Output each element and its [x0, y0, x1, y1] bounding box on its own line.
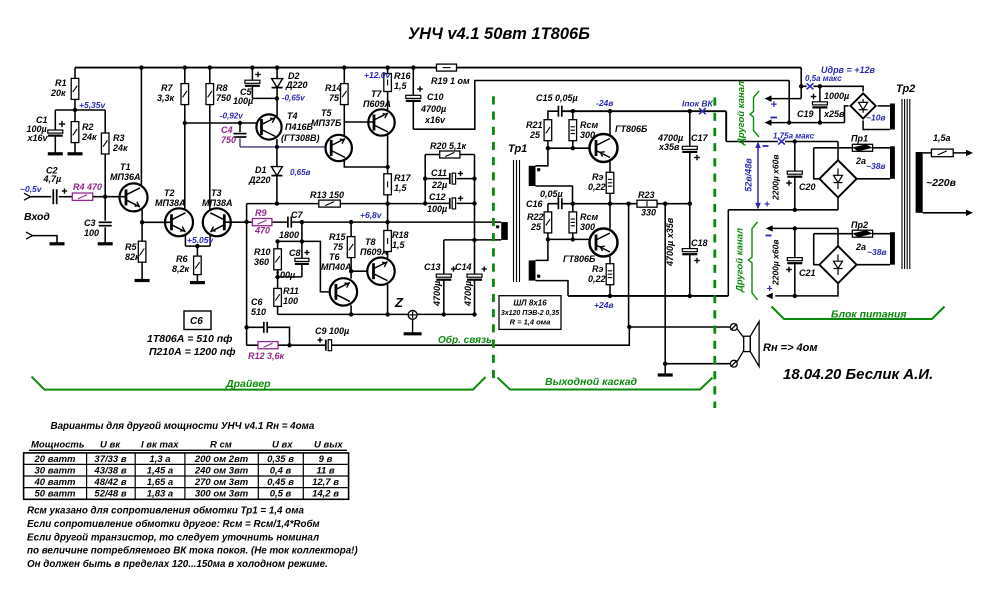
- transistor T3: [202, 188, 232, 236]
- svg-text:1,3 а: 1,3 а: [149, 454, 170, 465]
- input terminal: [24, 193, 31, 200]
- svg-text:R9: R9: [255, 208, 267, 218]
- label Блок питания: [831, 309, 907, 321]
- transistor T8: [360, 237, 395, 285]
- winding Tp2 sec2: [890, 146, 895, 179]
- capacitor C11: [431, 168, 463, 190]
- diode D1: [248, 165, 282, 185]
- transistor T4: [256, 111, 319, 143]
- wire T3 emitter: [209, 235, 211, 247]
- wire R20 block left: [424, 155, 426, 204]
- svg-text:11 в: 11 в: [316, 465, 335, 476]
- svg-text:2200µ х60в: 2200µ х60в: [771, 240, 781, 286]
- resistor R2: [71, 122, 97, 143]
- wire R12 to C9: [290, 344, 326, 346]
- svg-text:100µ: 100µ: [427, 204, 447, 214]
- svg-text:~38в: ~38в: [866, 161, 886, 171]
- svg-text:2а: 2а: [855, 156, 866, 166]
- wire T6 base path: [278, 241, 330, 292]
- svg-text:R18: R18: [392, 230, 409, 240]
- svg-text:50 ватт: 50 ватт: [35, 489, 77, 500]
- ground speaker: [658, 373, 673, 376]
- label date author: [783, 366, 933, 383]
- wire T1 emitter: [141, 209, 143, 222]
- svg-text:П609А: П609А: [363, 99, 391, 109]
- wire base line upper GT806: [548, 147, 590, 149]
- svg-text:R7: R7: [161, 83, 173, 93]
- wire R20 leads: [425, 154, 474, 156]
- capacitor C17: [657, 133, 709, 160]
- wire C18 branch: [689, 204, 691, 296]
- svg-text:Rсм: Rсм: [580, 120, 599, 130]
- svg-text:R1: R1: [55, 78, 67, 88]
- svg-text:750: 750: [221, 135, 236, 145]
- svg-text:Т5: Т5: [321, 108, 332, 118]
- svg-text:30 ватт: 30 ватт: [35, 465, 77, 476]
- svg-text:1,5: 1,5: [392, 240, 406, 250]
- wire input2 to ground: [33, 236, 58, 243]
- svg-text:1,5: 1,5: [394, 81, 408, 91]
- svg-text:0,35 в: 0,35 в: [267, 454, 294, 465]
- wire R4 to T1 base: [93, 196, 126, 198]
- wire junctions: [73, 65, 822, 366]
- transformer Tp2 label: [896, 83, 915, 95]
- svg-text:Rсм указано для сопротивления: Rсм указано для сопротивления обмотки Тр…: [27, 506, 304, 517]
- capacitor C6: [251, 297, 267, 333]
- svg-text:100: 100: [283, 296, 298, 306]
- svg-text:Вход: Вход: [24, 211, 50, 223]
- svg-text:R15: R15: [329, 232, 347, 242]
- transformer Tp1 core: [514, 160, 520, 282]
- svg-text:43/38 в: 43/38 в: [93, 465, 126, 476]
- capacitor C21: [771, 240, 816, 286]
- wire T6 emitter: [350, 305, 352, 314]
- svg-text:-24в: -24в: [596, 98, 613, 108]
- svg-text:МП36А: МП36А: [110, 172, 140, 182]
- transistor T1: [110, 162, 148, 211]
- input terminal 2: [26, 232, 33, 239]
- svg-text:0,5а макс: 0,5а макс: [805, 74, 842, 83]
- capacitor C14: [455, 262, 487, 307]
- wire speaker bottom lead: [665, 363, 730, 365]
- arrow mains bottom: [966, 210, 973, 216]
- resistor R19: [431, 64, 470, 86]
- wire Tp2 primary top: [923, 152, 967, 154]
- wire T2 emitter: [184, 235, 186, 247]
- winding Tp1 lower secondary: [529, 260, 541, 280]
- svg-text:R12 3,6к: R12 3,6к: [248, 351, 285, 361]
- label +24v: [594, 300, 614, 310]
- wire output of D-chain R13 line: [247, 203, 426, 205]
- capacitor C16: [526, 189, 563, 209]
- resistor Rsm lower: [569, 212, 599, 233]
- wire feedback branch vertical: [246, 204, 248, 346]
- label Драйвер: [225, 378, 271, 390]
- bracket other channel upper: [750, 91, 759, 137]
- bracket other channel lower: [749, 222, 758, 300]
- wire R16 branch: [387, 68, 389, 110]
- wire C5 branch: [252, 68, 277, 99]
- wire C6 branch: [247, 327, 290, 345]
- svg-text:25: 25: [529, 130, 541, 140]
- svg-text:Rэ: Rэ: [592, 264, 603, 274]
- svg-text:П210А = 1200 пф: П210А = 1200 пф: [149, 346, 236, 358]
- capacitor C12: [427, 192, 463, 214]
- wire rail return from C10: [413, 81, 789, 130]
- box transformer spec: [499, 296, 561, 330]
- wire C17 branch: [689, 111, 691, 204]
- speaker terminal top: [730, 324, 737, 331]
- wire C2 to R4: [59, 196, 73, 198]
- label 1,75a maks: [773, 132, 815, 141]
- capacitor C2: [43, 166, 68, 205]
- wire Tp2 primary bottom: [923, 212, 967, 214]
- wire T3 base to R9: [224, 221, 252, 223]
- resistor R4: [72, 182, 102, 200]
- svg-text:Rсм: Rсм: [580, 212, 599, 222]
- svg-text:I вк max: I вк max: [141, 440, 179, 451]
- rectifier bridge VD2: [819, 160, 856, 197]
- wire R8 T3 collector: [209, 68, 211, 211]
- wire Rsm2 branch: [572, 204, 574, 240]
- label 0,65в: [290, 168, 311, 177]
- wire C14 branch: [474, 240, 476, 315]
- wire emitter rail T2 T3: [185, 245, 210, 247]
- svg-text:R8: R8: [216, 83, 228, 93]
- svg-text:R5: R5: [125, 242, 137, 252]
- label +5.05v: [187, 235, 215, 245]
- wire C10 branch: [412, 68, 414, 130]
- svg-text:1,5: 1,5: [394, 183, 408, 193]
- resistor R8: [206, 83, 231, 105]
- wire R15 branch: [350, 222, 352, 279]
- label Rn 4om: [763, 342, 818, 354]
- ground input: [50, 242, 65, 245]
- ground C1: [48, 152, 63, 155]
- capacitor C8: [275, 248, 310, 280]
- winding Tp1 upper secondary: [529, 166, 541, 186]
- wire upper winding bottom: [536, 186, 573, 204]
- speaker: [737, 322, 759, 367]
- wire bridge2 ac box: [814, 148, 890, 179]
- label 0,5a maks: [805, 74, 842, 83]
- label ~10v: [866, 113, 886, 123]
- svg-text:100µ: 100µ: [233, 96, 253, 106]
- svg-text:4,7µ: 4,7µ: [43, 174, 62, 184]
- svg-text:0,05µ: 0,05µ: [540, 189, 563, 199]
- speaker terminal bottom: [730, 360, 737, 367]
- wire T4 emitter to node: [276, 139, 278, 147]
- wire R12 line: [247, 344, 290, 346]
- resistor R16: [384, 71, 412, 92]
- svg-text:R2: R2: [82, 122, 94, 132]
- wire bridge3 bottom: [775, 283, 838, 296]
- wire R10 top to +6.8 line: [278, 222, 321, 241]
- svg-text:52в/48в: 52в/48в: [744, 158, 754, 192]
- transistor T7: [363, 89, 395, 136]
- table power variants: [24, 421, 349, 500]
- label -0,65v: [282, 94, 305, 103]
- wire link +24 to PSU: [728, 210, 838, 296]
- wire -24v rail: [563, 111, 727, 141]
- svg-text:С6: С6: [190, 316, 203, 327]
- wire C4 to T5 base: [240, 138, 326, 147]
- svg-text:12,7 в: 12,7 в: [312, 477, 339, 488]
- wire Rsm1 branch: [572, 111, 574, 148]
- svg-text:0,22: 0,22: [588, 274, 606, 284]
- net divider output/psu: [713, 98, 716, 409]
- label ~0,5v: [20, 184, 43, 194]
- svg-text:750: 750: [216, 93, 231, 103]
- ground R2: [68, 152, 83, 155]
- wire R10 R11 chain: [277, 241, 279, 314]
- svg-text:R23: R23: [638, 190, 655, 200]
- capacitor C13: [424, 262, 456, 307]
- svg-text:~10в: ~10в: [866, 113, 886, 123]
- svg-text:Выходной каскад: Выходной каскад: [545, 376, 638, 388]
- wire speaker ground: [664, 364, 666, 374]
- svg-text:Т7: Т7: [371, 89, 382, 99]
- svg-text:40 ватт: 40 ватт: [34, 477, 77, 488]
- svg-text:4700µ: 4700µ: [432, 281, 442, 307]
- transistor T5: [311, 108, 352, 161]
- svg-text:Тр1: Тр1: [508, 143, 527, 155]
- svg-text:22µ: 22µ: [431, 180, 447, 190]
- svg-text:1,83 а: 1,83 а: [147, 489, 173, 500]
- net divider driver/output stage: [492, 96, 495, 383]
- svg-text:Варианты для другой мощности: Варианты для другой мощности УНЧ v4.1 Rн…: [51, 421, 315, 432]
- wire R14 T5 collector: [343, 68, 345, 136]
- wire C8 branch: [278, 222, 302, 277]
- wire C1 branch: [54, 110, 56, 153]
- label P210A value: [149, 346, 236, 358]
- wire bridge1 bottom: [863, 120, 890, 129]
- svg-text:470: 470: [254, 226, 270, 236]
- svg-text:R21: R21: [526, 120, 543, 130]
- wire R1 stub: [74, 68, 76, 110]
- wire R7 branch: [184, 68, 186, 210]
- svg-text:Драйвер: Драйвер: [225, 378, 271, 390]
- wire bridge3 top: [837, 228, 839, 246]
- svg-text:МП38А: МП38А: [202, 198, 232, 208]
- wire bridge1 left: [845, 106, 849, 123]
- capacitor C5: [233, 72, 261, 106]
- svg-text:С15 0,05µ: С15 0,05µ: [536, 93, 578, 103]
- winding Tp1 primary: [496, 222, 508, 240]
- svg-text:Т2: Т2: [164, 188, 175, 198]
- svg-text:R19 1 ом: R19 1 ом: [431, 76, 470, 86]
- wire lower GT806 collector: [609, 204, 611, 229]
- svg-text:по величине потребляемого ВК т: по величине потребляемого ВК тока покоя.…: [27, 546, 358, 557]
- wire other channel upper plus: [771, 98, 801, 100]
- brace Блок питания: [772, 307, 945, 320]
- svg-text:R10: R10: [254, 247, 271, 257]
- arrow other channel lower minus: [766, 225, 773, 235]
- svg-text:Т1: Т1: [120, 162, 131, 172]
- svg-text:+24в: +24в: [594, 300, 614, 310]
- svg-text:U вых: U вых: [314, 440, 343, 451]
- svg-text:С16: С16: [526, 199, 544, 209]
- transistor VT upper GT806B: [590, 124, 649, 162]
- svg-text:С14: С14: [455, 262, 472, 272]
- svg-text:Т6: Т6: [329, 252, 340, 262]
- wire T4 base line: [185, 122, 257, 124]
- arrow other channel plus: [765, 95, 778, 111]
- resistor R23: [637, 190, 657, 218]
- svg-text:(ГТ308В): (ГТ308В): [281, 133, 320, 143]
- svg-text:75: 75: [333, 242, 344, 252]
- fuse Pr1: [851, 134, 873, 167]
- svg-text:С10: С10: [427, 92, 444, 102]
- svg-text:9 в: 9 в: [319, 454, 333, 465]
- capacitor C7: [279, 210, 303, 240]
- svg-text:Он должен быть в пределах 120: Он должен быть в пределах 120...150ма в …: [27, 559, 328, 570]
- wire R5 branch: [141, 222, 143, 279]
- resistor R21: [526, 120, 552, 141]
- svg-text:R16: R16: [394, 71, 412, 81]
- arrow mains top: [966, 150, 973, 156]
- wire R6 branch: [196, 246, 198, 281]
- svg-text:1,65 а: 1,65 а: [147, 477, 173, 488]
- svg-text:20 ватт: 20 ватт: [34, 454, 77, 465]
- svg-text:360: 360: [254, 257, 269, 267]
- svg-text:25: 25: [530, 222, 542, 232]
- resistor R1: [50, 78, 79, 99]
- svg-text:+12.0v: +12.0v: [364, 70, 392, 80]
- svg-text:20к: 20к: [50, 88, 66, 98]
- svg-text:С20: С20: [799, 182, 816, 192]
- svg-text:УНЧ v4.1 50вт 1Т806Б: УНЧ v4.1 50вт 1Т806Б: [408, 25, 590, 43]
- wire other channel lower top: [772, 227, 838, 229]
- svg-text:МП38А: МП38А: [155, 198, 185, 208]
- wire Tp1 primary bottom: [444, 239, 501, 241]
- wire bridge3 right: [857, 264, 890, 266]
- svg-text:Z: Z: [394, 295, 404, 310]
- wire output to speaker: [628, 204, 630, 327]
- rectifier bridge VD1: [851, 93, 876, 118]
- svg-text:R11: R11: [283, 286, 299, 296]
- svg-text:МП40А: МП40А: [321, 262, 351, 272]
- wire R3 branch: [104, 110, 106, 197]
- wire C13 branch: [443, 240, 445, 315]
- svg-text:52/48 в: 52/48 в: [94, 489, 126, 500]
- svg-text:С11: С11: [431, 168, 447, 178]
- label Udrv: [821, 65, 876, 75]
- capacitor C18: [665, 217, 708, 267]
- capacitor C3: [84, 218, 112, 238]
- wire driver ground rail: [278, 313, 475, 315]
- resistor R5: [125, 241, 146, 262]
- wire C11 line: [425, 178, 474, 180]
- wire C20 branch: [794, 142, 796, 210]
- svg-text:0,22: 0,22: [588, 182, 606, 192]
- resistor Re lower: [588, 264, 614, 285]
- resistor R20: [430, 141, 467, 158]
- ground R6: [190, 281, 205, 284]
- label -24v: [596, 98, 613, 108]
- resistor R3: [101, 133, 128, 154]
- wire R9 C7 +6.8v line: [272, 221, 501, 223]
- diode D2: [272, 71, 308, 90]
- winding Tp2 sec1: [890, 104, 895, 130]
- resistor R6: [172, 254, 201, 275]
- svg-text:-0,92v: -0,92v: [220, 112, 243, 121]
- svg-text:Д220: Д220: [285, 80, 308, 90]
- wire upper GT806 emitter Re: [609, 161, 611, 204]
- wire other channel upper minus C19 bottom: [771, 122, 845, 124]
- label ~220v: [926, 177, 957, 189]
- svg-text:2а: 2а: [855, 242, 866, 252]
- wire 12v branch vertical: [800, 68, 802, 99]
- svg-text:75: 75: [329, 93, 340, 103]
- wire +24v rail: [568, 295, 728, 297]
- svg-text:Д220: Д220: [248, 175, 271, 185]
- svg-text:ГТ806Б: ГТ806Б: [563, 254, 596, 264]
- svg-text:Мощность: Мощность: [31, 440, 85, 451]
- svg-text:Другой канал: Другой канал: [735, 228, 746, 293]
- wire R20 block right: [474, 155, 476, 240]
- svg-text:37/33 в: 37/33 в: [94, 454, 126, 465]
- svg-text:ГТ806Б: ГТ806Б: [615, 124, 648, 134]
- wire D1 branch: [276, 147, 278, 204]
- wire speaker top lead: [629, 326, 730, 328]
- svg-text:+6,8v: +6,8v: [360, 210, 383, 220]
- wire T8 base: [351, 270, 367, 272]
- wire T7 base: [344, 121, 374, 123]
- fuse 1,5a: [931, 133, 953, 157]
- transistor T2: [155, 188, 193, 236]
- svg-text:С9 100µ: С9 100µ: [315, 326, 349, 336]
- svg-text:14,2 в: 14,2 в: [312, 489, 339, 500]
- svg-text:3,3к: 3,3к: [157, 93, 175, 103]
- svg-text:х25в: х25в: [823, 109, 845, 119]
- wire R2 branch: [74, 110, 76, 153]
- ground Z: [404, 332, 422, 335]
- svg-text:х35в: х35в: [658, 142, 680, 152]
- wire base line lower GT806: [548, 238, 590, 240]
- label Обр. связь: [438, 334, 492, 346]
- svg-text:1,5а: 1,5а: [933, 133, 951, 143]
- svg-text:Rн => 4ом: Rн => 4ом: [763, 342, 818, 354]
- svg-text:R22: R22: [527, 212, 544, 222]
- wire feedback line C9 to output: [332, 327, 630, 345]
- svg-text:+: +: [771, 99, 778, 111]
- svg-text:С8: С8: [289, 248, 301, 258]
- label ~38v upper: [866, 161, 886, 171]
- svg-text:С13: С13: [424, 262, 441, 272]
- wire bridge2 right: [857, 178, 890, 180]
- svg-text:C3: C3: [84, 218, 96, 228]
- wire -24 rail to fuse: [726, 141, 838, 143]
- svg-text:П416Б: П416Б: [285, 122, 313, 132]
- notes: [27, 506, 358, 571]
- wire C15 left: [548, 111, 558, 120]
- rectifier bridge VD3: [819, 246, 856, 283]
- wire midpoint to speaker return: [664, 204, 666, 364]
- svg-text:Пр2: Пр2: [851, 220, 868, 230]
- resistor R15: [329, 232, 355, 258]
- resistor R12: [248, 342, 285, 361]
- svg-text:С6: С6: [251, 297, 263, 307]
- wire bridge1 right: [878, 105, 890, 107]
- wire lower winding top: [536, 239, 548, 260]
- svg-text:Т3: Т3: [211, 188, 222, 198]
- capacitor C19: [797, 91, 849, 119]
- svg-text:300 ом 3вт: 300 ом 3вт: [195, 489, 249, 500]
- transistor T6: [321, 252, 357, 306]
- wire lower GT806 emitter Re: [609, 256, 611, 296]
- svg-text:МП37Б: МП37Б: [311, 118, 342, 128]
